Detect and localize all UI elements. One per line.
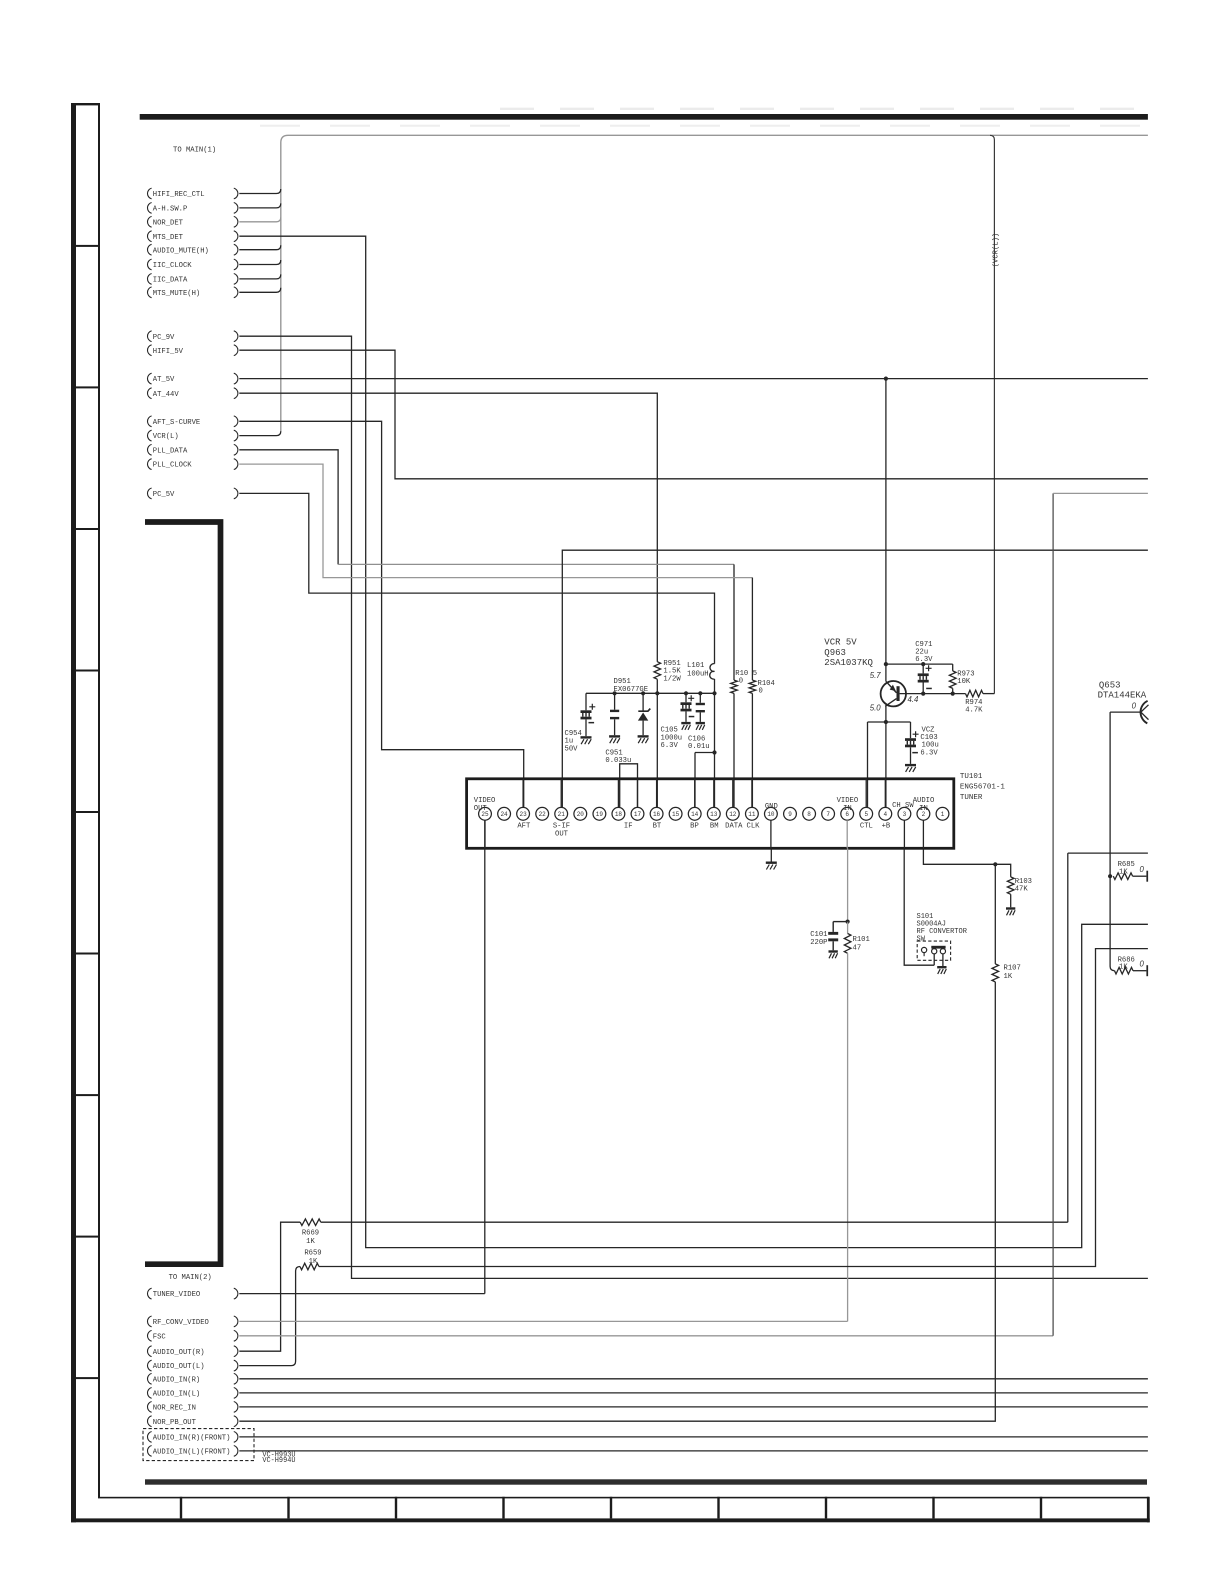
svg-text:16: 16 xyxy=(653,811,661,818)
svg-text:17: 17 xyxy=(634,811,642,818)
svg-text:VIDEO: VIDEO xyxy=(474,797,496,805)
svg-text:BM: BM xyxy=(710,822,719,830)
svg-text:NOR_DET: NOR_DET xyxy=(153,219,184,227)
svg-text:6.3V: 6.3V xyxy=(915,656,933,664)
svg-text:0: 0 xyxy=(1140,865,1145,874)
svg-text:1K: 1K xyxy=(1119,868,1128,876)
svg-text:5.7: 5.7 xyxy=(870,671,882,680)
svg-text:23: 23 xyxy=(520,811,528,818)
svg-text:12: 12 xyxy=(729,811,737,818)
svg-text:10: 10 xyxy=(767,811,775,818)
svg-text:IIC_CLOCK: IIC_CLOCK xyxy=(153,262,193,270)
svg-text:AUDIO_IN(R): AUDIO_IN(R) xyxy=(153,1376,200,1384)
svg-text:BT: BT xyxy=(653,822,662,830)
svg-text:AUDIO_IN(R)(FRONT): AUDIO_IN(R)(FRONT) xyxy=(153,1435,231,1443)
svg-text:VC-H994U: VC-H994U xyxy=(262,1457,295,1465)
svg-text:13: 13 xyxy=(710,811,718,818)
svg-text:AFT_S-CURVE: AFT_S-CURVE xyxy=(153,419,200,427)
svg-text:10K: 10K xyxy=(957,678,971,686)
svg-text:20: 20 xyxy=(577,811,585,818)
svg-text:AUDIO_MUTE(H): AUDIO_MUTE(H) xyxy=(153,247,209,255)
svg-text:IF: IF xyxy=(624,822,633,830)
svg-text:1K: 1K xyxy=(1119,964,1128,972)
svg-text:5.0: 5.0 xyxy=(870,704,882,713)
svg-text:5: 5 xyxy=(864,811,868,818)
svg-text:VCR(L): VCR(L) xyxy=(153,433,179,441)
svg-text:AT_5V: AT_5V xyxy=(153,376,175,384)
svg-text:R669: R669 xyxy=(302,1230,319,1238)
svg-text:VIDEO: VIDEO xyxy=(837,797,859,805)
svg-text:OUT: OUT xyxy=(474,805,488,813)
svg-text:TO MAIN(2): TO MAIN(2) xyxy=(169,1274,212,1282)
svg-text:NOR_PB_OUT: NOR_PB_OUT xyxy=(153,1419,197,1427)
svg-text:24: 24 xyxy=(500,811,508,818)
svg-text:TO MAIN(1): TO MAIN(1) xyxy=(173,147,216,155)
svg-text:18: 18 xyxy=(615,811,623,818)
svg-text:PLL_CLOCK: PLL_CLOCK xyxy=(153,462,193,470)
svg-text:C951: C951 xyxy=(605,749,622,757)
svg-text:21: 21 xyxy=(558,811,566,818)
svg-text:PLL_DATA: PLL_DATA xyxy=(153,447,188,455)
svg-text:0: 0 xyxy=(1140,960,1145,969)
svg-text:50V: 50V xyxy=(565,745,579,753)
svg-text:BP: BP xyxy=(690,822,699,830)
svg-text:L101: L101 xyxy=(687,662,704,670)
svg-text:ENG56701-1: ENG56701-1 xyxy=(960,784,1006,792)
svg-text:1/2W: 1/2W xyxy=(663,675,681,683)
svg-text:0: 0 xyxy=(1132,702,1137,711)
svg-text:47: 47 xyxy=(853,945,862,953)
svg-text:CLK: CLK xyxy=(747,822,761,830)
svg-text:NOR_REC_IN: NOR_REC_IN xyxy=(153,1405,196,1413)
svg-text:AUDIO: AUDIO xyxy=(913,797,935,805)
svg-text:1K: 1K xyxy=(309,1258,318,1266)
svg-text:AUDIO_OUT(L): AUDIO_OUT(L) xyxy=(153,1363,205,1371)
svg-text:47K: 47K xyxy=(1015,886,1029,894)
svg-text:9: 9 xyxy=(788,811,792,818)
svg-text:CTL: CTL xyxy=(860,822,873,830)
svg-text:AT_44V: AT_44V xyxy=(153,391,180,399)
svg-text:100uH: 100uH xyxy=(687,671,709,679)
svg-text:1: 1 xyxy=(941,811,945,818)
svg-text:R101: R101 xyxy=(853,936,870,944)
svg-text:OUT: OUT xyxy=(555,831,569,839)
svg-text:C105: C105 xyxy=(661,727,678,735)
svg-text:8: 8 xyxy=(807,811,811,818)
svg-text:4.4: 4.4 xyxy=(908,695,920,704)
svg-text:AUDIO_IN(L): AUDIO_IN(L) xyxy=(153,1391,200,1399)
svg-text:Q653: Q653 xyxy=(1099,680,1121,690)
svg-text:EX0677GE: EX0677GE xyxy=(614,686,649,694)
svg-text:MTS_MUTE(H): MTS_MUTE(H) xyxy=(153,290,200,298)
svg-text:SW: SW xyxy=(917,935,926,943)
svg-text:14: 14 xyxy=(691,811,699,818)
svg-text:AFT: AFT xyxy=(517,822,531,830)
svg-text:S-IF: S-IF xyxy=(553,822,570,830)
svg-text:CH SW: CH SW xyxy=(892,802,914,810)
svg-text:R107: R107 xyxy=(1004,965,1021,973)
svg-text:6.3V: 6.3V xyxy=(920,749,938,757)
svg-text:15: 15 xyxy=(672,811,680,818)
svg-text:PC_9V: PC_9V xyxy=(153,334,175,342)
svg-text:7: 7 xyxy=(826,811,830,818)
svg-text:19: 19 xyxy=(596,811,604,818)
svg-text:HIFI_5V: HIFI_5V xyxy=(153,348,184,356)
svg-text:4.7K: 4.7K xyxy=(965,707,983,715)
svg-text:TUNER: TUNER xyxy=(960,794,983,802)
svg-text:4: 4 xyxy=(884,811,888,818)
svg-text:GND: GND xyxy=(765,803,778,811)
svg-text:TU101: TU101 xyxy=(960,773,983,781)
svg-text:VCR 5V: VCR 5V xyxy=(824,638,857,648)
svg-text:R659: R659 xyxy=(304,1250,321,1258)
svg-text:220P: 220P xyxy=(810,939,827,947)
svg-text:TUNER_VIDEO: TUNER_VIDEO xyxy=(153,1291,200,1299)
svg-text:PC_5V: PC_5V xyxy=(153,491,175,499)
svg-text:AUDIO_OUT(R): AUDIO_OUT(R) xyxy=(153,1349,205,1357)
svg-text:0.033u: 0.033u xyxy=(605,757,631,765)
svg-text:AUDIO_IN(L)(FRONT): AUDIO_IN(L)(FRONT) xyxy=(153,1449,231,1457)
svg-text:3: 3 xyxy=(903,811,907,818)
svg-text:MTS_DET: MTS_DET xyxy=(153,234,184,242)
svg-text:FSC: FSC xyxy=(153,1333,167,1341)
svg-text:IN: IN xyxy=(919,805,928,813)
svg-text:11: 11 xyxy=(748,811,756,818)
svg-text:A-H.SW.P: A-H.SW.P xyxy=(153,206,188,214)
svg-text:HIFI_REC_CTL: HIFI_REC_CTL xyxy=(153,191,205,199)
svg-text:5: 5 xyxy=(753,670,757,678)
svg-text:C106: C106 xyxy=(688,735,705,743)
svg-text:IN: IN xyxy=(843,805,852,813)
svg-text:RF_CONV_VIDEO: RF_CONV_VIDEO xyxy=(153,1319,209,1327)
svg-text:2SA1037KQ: 2SA1037KQ xyxy=(824,658,873,668)
svg-text:DATA: DATA xyxy=(725,822,743,830)
svg-text:DTA144EKA: DTA144EKA xyxy=(1098,691,1147,701)
svg-text:1K: 1K xyxy=(306,1238,315,1246)
svg-text:D951: D951 xyxy=(614,678,631,686)
svg-text:+B: +B xyxy=(882,822,891,830)
svg-text:1000u: 1000u xyxy=(661,734,683,742)
svg-text:0: 0 xyxy=(739,678,743,686)
svg-text:22: 22 xyxy=(539,811,547,818)
svg-text:0.01u: 0.01u xyxy=(688,743,710,751)
svg-text:Q963: Q963 xyxy=(824,648,846,658)
svg-text:6.3V: 6.3V xyxy=(661,742,679,750)
svg-text:1K: 1K xyxy=(1004,973,1013,981)
svg-text:(VCR(L)): (VCR(L)) xyxy=(992,233,1000,268)
svg-text:IIC_DATA: IIC_DATA xyxy=(153,277,188,285)
svg-text:0: 0 xyxy=(759,688,763,696)
